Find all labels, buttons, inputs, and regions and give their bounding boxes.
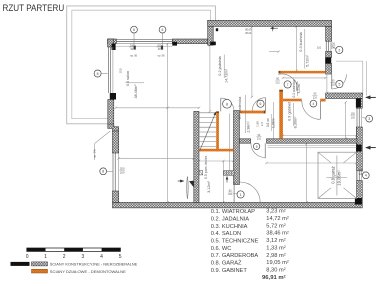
svg-text:6: 6 bbox=[162, 28, 164, 32]
svg-text:1: 1 bbox=[240, 193, 242, 197]
wall right lower below garage window bbox=[356, 181, 362, 203]
dim line salon 401,5 bbox=[119, 157, 194, 159]
black tick below top-right wall bbox=[216, 28, 218, 31]
svg-text:200: 200 bbox=[120, 170, 125, 174]
svg-text:8: 8 bbox=[226, 102, 228, 106]
door D7 swing wedge bbox=[189, 181, 194, 188]
window gabinet right wall bbox=[356, 108, 358, 127]
window marker circle kuchnia bbox=[336, 46, 343, 53]
svg-text:4: 4 bbox=[365, 174, 367, 178]
svg-text:0.6 wc: 0.6 wc bbox=[266, 117, 270, 127]
garage door track lines bbox=[268, 144, 357, 146]
svg-text:0: 0 bbox=[26, 254, 29, 260]
svg-text:3,23m²: 3,23m² bbox=[297, 84, 301, 94]
svg-text:100: 100 bbox=[331, 46, 336, 49]
svg-text:0.8 garaż: 0.8 garaż bbox=[331, 166, 336, 183]
svg-text:210: 210 bbox=[313, 96, 318, 99]
wall right upper above window bbox=[326, 26, 332, 41]
svg-text:150: 150 bbox=[359, 169, 364, 172]
wall bottom long bbox=[113, 202, 363, 208]
wall top-left corner hatch bbox=[108, 39, 117, 44]
door marker circle D6 bbox=[237, 191, 244, 198]
interior steps techniczne bbox=[199, 171, 234, 183]
legend solid black swatch bbox=[11, 262, 30, 266]
wall right upper below block to door bbox=[326, 64, 332, 75]
svg-text:14,72 m2: 14,72 m2 bbox=[266, 216, 289, 222]
svg-text:5,72m²: 5,72m² bbox=[306, 54, 310, 67]
svg-text:38,46 m2: 38,46 m2 bbox=[266, 230, 289, 236]
dim line 133 bbox=[326, 73, 328, 93]
door D2 arc bbox=[252, 98, 265, 111]
svg-text:1,33m²: 1,33m² bbox=[271, 118, 275, 128]
svg-text:ŚCIANY DZIAŁOWE - DEMONTOWALNE: ŚCIANY DZIAŁOWE - DEMONTOWALNE bbox=[50, 269, 126, 274]
door marker circle D3 bbox=[284, 81, 291, 88]
svg-text:0.4. SALON: 0.4. SALON bbox=[211, 231, 241, 237]
svg-text:2: 2 bbox=[338, 48, 340, 52]
svg-text:3: 3 bbox=[368, 117, 370, 121]
door D1 jadalnia-stairs leaf bbox=[220, 98, 222, 111]
entry arrow garage bbox=[366, 147, 376, 149]
door D2 garderoba leaf bbox=[265, 98, 267, 111]
svg-text:4: 4 bbox=[313, 102, 315, 106]
door D7 leaf lens bbox=[187, 177, 188, 199]
door D8 arc bbox=[332, 74, 347, 89]
door marker circle D5 bbox=[253, 143, 259, 149]
black pier below top-left corner bbox=[112, 44, 116, 50]
window top wall triple lines bbox=[116, 38, 172, 40]
svg-text:np 36: np 36 bbox=[158, 53, 165, 57]
orange wall kuchnia south P5 bbox=[279, 71, 326, 74]
svg-text:0.1. WIATROŁAP: 0.1. WIATROŁAP bbox=[211, 209, 255, 215]
svg-text:0.3 kuchnia: 0.3 kuchnia bbox=[299, 31, 303, 51]
svg-text:19,05 m2: 19,05 m2 bbox=[266, 260, 289, 266]
svg-text:3,12 m2: 3,12 m2 bbox=[266, 238, 285, 244]
svg-text:200: 200 bbox=[228, 193, 233, 196]
svg-text:210: 210 bbox=[331, 84, 336, 87]
door D7 techniczne arrow bbox=[178, 180, 184, 182]
door D8 entrance leaf bbox=[331, 74, 333, 89]
svg-text:14,72m²: 14,72m² bbox=[225, 68, 229, 83]
wall right lower between windows bbox=[356, 127, 362, 171]
dim line salon 840 bbox=[167, 44, 169, 202]
dim line jadalnia 344,5 bbox=[209, 45, 211, 111]
dim line techniczne 173 bbox=[199, 160, 234, 162]
wall garage top left stub bbox=[240, 139, 251, 143]
door D4 leaf bbox=[320, 101, 322, 119]
svg-text:100: 100 bbox=[359, 173, 364, 176]
wall right upper between window and block bbox=[326, 51, 332, 57]
door marker circle D1 bbox=[223, 99, 232, 108]
window left lower bbox=[112, 153, 114, 191]
svg-text:38,46m²: 38,46m² bbox=[134, 84, 138, 99]
svg-text:3: 3 bbox=[82, 254, 85, 260]
svg-text:96,91 m2: 96,91 m2 bbox=[262, 274, 286, 280]
wall leader line bottom left bbox=[94, 144, 96, 161]
window marker circle O1 top wall bbox=[131, 26, 138, 33]
garage center line / label divider bbox=[336, 156, 338, 196]
svg-text:0.7 garderoba: 0.7 garderoba bbox=[238, 97, 242, 119]
svg-text:3,23 m2: 3,23 m2 bbox=[266, 208, 285, 214]
dimension end ticks bbox=[114, 25, 357, 203]
orange wall techniczne north P2 bbox=[199, 149, 234, 152]
svg-text:ŚCIANY KONSTRUKCYJNE - NIEROZB: ŚCIANY KONSTRUKCYJNE - NIEROZBIERALNE bbox=[50, 261, 138, 266]
window marker circle O2 top wall bbox=[159, 26, 166, 33]
door D6 arc bbox=[240, 182, 260, 202]
orange wall garderoba north P3 bbox=[240, 111, 266, 114]
svg-text:sp. 2%: sp. 2% bbox=[92, 149, 96, 158]
svg-text:7: 7 bbox=[287, 83, 289, 87]
svg-text:0.5. TECHNICZNE: 0.5. TECHNICZNE bbox=[211, 239, 259, 245]
black block E wall right end bbox=[356, 99, 361, 108]
svg-text:210: 210 bbox=[276, 81, 281, 84]
svg-text:19,06m²: 19,06m² bbox=[337, 170, 342, 186]
wall left jog bbox=[108, 124, 119, 132]
svg-text:1: 1 bbox=[44, 254, 47, 260]
dim line techniczne 174,5 bbox=[222, 161, 224, 202]
black block bottom-right corner bbox=[355, 198, 362, 205]
window marker circle garage bbox=[362, 172, 369, 179]
black block right wall upper bbox=[325, 58, 331, 64]
garage envelope diagonals bbox=[318, 152, 357, 198]
svg-text:1,80: 1,80 bbox=[255, 121, 259, 127]
door D6 wiatrolap leaf bbox=[233, 183, 235, 203]
svg-text:3,12m²: 3,12m² bbox=[207, 180, 211, 193]
window terrace door left wall bbox=[107, 47, 109, 93]
svg-text:8,30m²: 8,30m² bbox=[293, 116, 297, 129]
door marker circle D8 entrance bbox=[336, 81, 343, 88]
svg-text:2,6: 2,6 bbox=[260, 122, 264, 127]
svg-text:0.2 jadalnia: 0.2 jadalnia bbox=[218, 55, 222, 75]
wall left lower above window bbox=[113, 131, 119, 153]
wall top-right long bbox=[208, 20, 332, 26]
door D4 gabinet arc bbox=[302, 101, 320, 119]
dim line kuchnia 251,5 bbox=[269, 51, 279, 53]
wall hall-wiatrolap vertical bbox=[234, 111, 240, 185]
dim line salon 422 bbox=[116, 107, 199, 109]
wall E horizontal gabinet top-right bbox=[326, 93, 363, 99]
svg-text:0.4 salon: 0.4 salon bbox=[126, 71, 130, 86]
black block left wall terrace door bottom bbox=[110, 93, 116, 100]
terrace outline outer bbox=[67, 6, 216, 124]
wall left upper below terrace door bbox=[108, 100, 114, 128]
door D1 arc bbox=[221, 98, 234, 111]
svg-text:RZUT PARTERU: RZUT PARTERU bbox=[3, 3, 65, 13]
dim line kuchnia 227,5 bbox=[295, 26, 297, 71]
svg-text:0.3. KUCHNIA: 0.3. KUCHNIA bbox=[211, 224, 248, 230]
dim line wiatrolap 446 bbox=[251, 27, 253, 97]
black block garage top-right corner bbox=[356, 145, 361, 152]
svg-text:0.2. JADALNIA: 0.2. JADALNIA bbox=[211, 216, 249, 222]
black pier at window end top wall bbox=[172, 42, 177, 46]
orange wall stairs side P1 bbox=[216, 111, 219, 151]
black block at wall B bottom bbox=[210, 42, 216, 46]
window marker circle gabinet bbox=[366, 115, 373, 122]
svg-text:0.1 wiatrołap: 0.1 wiatrołap bbox=[292, 79, 296, 97]
wall left lower below window bbox=[113, 191, 119, 202]
svg-text:5: 5 bbox=[338, 83, 340, 87]
orange wall gabinet north P6a bbox=[283, 99, 302, 102]
svg-text:8,30 m2: 8,30 m2 bbox=[266, 267, 285, 273]
terrace outline inner bbox=[72, 10, 211, 118]
door marker circle D2 bbox=[257, 100, 264, 107]
legend orange swatch bbox=[32, 269, 48, 273]
svg-text:5: 5 bbox=[119, 254, 122, 260]
entry arrow right side door bbox=[366, 96, 376, 98]
steps up arrow bbox=[226, 177, 228, 183]
wall top-left segment right of window bbox=[172, 39, 208, 44]
stairs direction arrow bbox=[200, 112, 216, 151]
window garage right wall bbox=[356, 171, 358, 181]
legend hatched swatch bbox=[32, 262, 48, 266]
window marker circle left lower bbox=[100, 168, 107, 175]
svg-text:210: 210 bbox=[257, 138, 262, 141]
door D3 kuchnia arc bbox=[278, 74, 297, 85]
svg-text:9: 9 bbox=[256, 145, 258, 149]
svg-text:0.5 pom. techn.: 0.5 pom. techn. bbox=[204, 155, 208, 179]
svg-text:6: 6 bbox=[260, 102, 262, 106]
stairs treads bbox=[199, 113, 216, 147]
svg-text:np 36: np 36 bbox=[130, 53, 137, 57]
svg-text:6: 6 bbox=[133, 28, 135, 32]
svg-text:150: 150 bbox=[118, 68, 122, 73]
dim line garage 617,5 bbox=[267, 162, 357, 164]
door marker circle D4 bbox=[310, 100, 317, 107]
svg-text:2,98 m2: 2,98 m2 bbox=[266, 252, 285, 258]
svg-text:2: 2 bbox=[63, 254, 66, 260]
svg-text:0.9 gabinet: 0.9 gabinet bbox=[287, 101, 291, 121]
svg-text:2,98m²: 2,98m² bbox=[246, 121, 250, 133]
svg-text:4: 4 bbox=[100, 254, 103, 260]
dim line gabinet 204 bbox=[345, 102, 347, 139]
door D5 garage leaf bbox=[264, 143, 266, 158]
svg-text:110: 110 bbox=[317, 46, 322, 50]
door D5 arc bbox=[251, 143, 265, 157]
window kitchen right wall bbox=[325, 41, 327, 51]
svg-text:Ø110: Ø110 bbox=[245, 32, 252, 35]
svg-text:0.9. GABINET: 0.9. GABINET bbox=[211, 268, 248, 274]
wall stairs-salon upper bbox=[194, 111, 199, 202]
dim line garage 312 bbox=[306, 144, 308, 203]
svg-text:5,72 m2: 5,72 m2 bbox=[266, 223, 285, 229]
svg-text:0.6. WC: 0.6. WC bbox=[211, 246, 232, 252]
axis marker circle left bbox=[94, 70, 101, 77]
svg-text:8: 8 bbox=[102, 170, 104, 174]
svg-text:8: 8 bbox=[97, 72, 99, 76]
orange wall vertical P4 bbox=[279, 90, 283, 139]
wall left upper corner piece bbox=[108, 39, 114, 47]
dim line wiatrolap 235,5 bbox=[283, 77, 326, 79]
svg-text:0.7. GARDEROBA: 0.7. GARDEROBA bbox=[211, 253, 259, 259]
vent arrow on top wall bbox=[271, 27, 278, 29]
garage envelope rectangle bbox=[318, 152, 357, 198]
wall garage top main bbox=[267, 139, 358, 143]
dim line gabinet 457 bbox=[283, 135, 356, 137]
orange wall gabinet north cap P6b bbox=[320, 99, 325, 102]
svg-text:1,33 m2: 1,33 m2 bbox=[266, 245, 285, 251]
wall right lower above window bbox=[356, 99, 362, 109]
svg-text:0.8. GARAŻ: 0.8. GARAŻ bbox=[211, 260, 242, 267]
svg-text:100: 100 bbox=[351, 116, 356, 119]
wall connector B vertical bbox=[208, 20, 214, 45]
scale bar bbox=[27, 248, 121, 251]
